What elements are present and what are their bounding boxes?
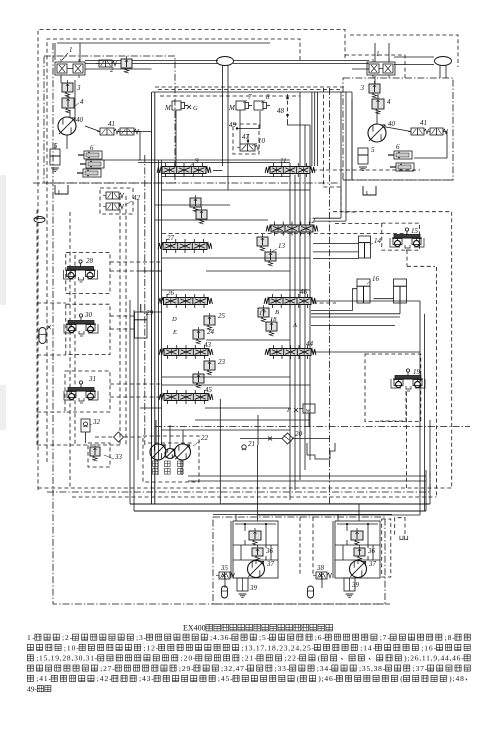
spool valve 43 ten-way xyxy=(164,349,208,356)
pilot filter capsule xyxy=(34,217,45,223)
dashed stub right of swing xyxy=(395,518,405,535)
svg-text:;6-: ;6- xyxy=(315,633,326,642)
svg-text:;43-: ;43- xyxy=(139,674,154,683)
dashed pilot drop rocker19 xyxy=(405,392,407,488)
svg-text:16: 16 xyxy=(372,275,380,283)
dashed box 33 xyxy=(88,443,110,467)
return lines above manifold xyxy=(188,475,426,477)
right bank feed lines upper xyxy=(311,92,313,166)
overload valve 13 xyxy=(257,237,268,246)
svg-text:21: 21 xyxy=(248,440,255,448)
tank left travel xyxy=(55,185,68,194)
wire top bus left xyxy=(85,60,218,62)
svg-text:;12-: ;12- xyxy=(143,643,158,652)
svg-text:33: 33 xyxy=(114,453,123,461)
tank symbol under 5 right xyxy=(359,166,367,168)
svg-text:25: 25 xyxy=(218,312,226,320)
dashed lower boundary xyxy=(38,487,452,489)
overload valve 4 right xyxy=(372,99,384,109)
aux pump small xyxy=(165,449,175,459)
front pump xyxy=(150,444,166,460)
relief pair upper b xyxy=(196,210,207,219)
pilot filter diamond xyxy=(114,432,124,442)
travel motor 40 left xyxy=(58,117,76,135)
check valve 32 xyxy=(81,419,90,432)
speed valve 41 left a xyxy=(100,128,114,135)
svg-text:;37-: ;37- xyxy=(413,664,428,673)
remote control valve 19 xyxy=(406,369,409,372)
wire valve9 to joint xyxy=(213,170,223,172)
relief pair upper a xyxy=(190,198,201,207)
svg-text:36: 36 xyxy=(265,547,274,555)
spool valve 26 xyxy=(164,298,208,305)
dashed headers under bus xyxy=(155,86,345,88)
bucket cylinder 14 xyxy=(359,236,371,258)
spool valve 46 xyxy=(269,298,311,305)
swing ground symbols xyxy=(239,593,247,595)
overload valve 13b xyxy=(265,252,276,261)
wire rocker 15 pilots xyxy=(406,250,408,266)
spool valve 11 xyxy=(270,167,310,174)
pump outlet lines xyxy=(155,420,157,444)
tank right travel xyxy=(363,186,376,195)
wire network left cluster to bank xyxy=(85,68,152,70)
spool valve 27 nine-way xyxy=(163,243,207,250)
swing frame left xyxy=(233,521,278,578)
dashed box pilot selector xyxy=(233,124,259,154)
dashed pilot to rocker 15 xyxy=(335,222,382,224)
pilot spool valve 9 xyxy=(162,167,206,174)
svg-text:4: 4 xyxy=(387,98,391,106)
rear pump xyxy=(175,444,191,460)
dash-dot swing frame xyxy=(213,517,385,604)
dashed box rocker 28 xyxy=(66,253,110,294)
svg-text:1: 1 xyxy=(69,46,73,54)
svg-text:9: 9 xyxy=(195,157,199,165)
long pilot dashed crossline xyxy=(162,232,407,234)
swash piston 6 left b xyxy=(86,160,104,168)
pilot valve 3 top xyxy=(121,59,132,68)
pilot supply lines xyxy=(85,432,87,443)
dashed drop line right xyxy=(435,267,437,497)
svg-text:39: 39 xyxy=(249,584,258,592)
oil cooler 20 xyxy=(282,433,293,444)
svg-text:44: 44 xyxy=(306,340,314,348)
wire boom cylinders feed xyxy=(311,289,357,311)
left block edge line2 xyxy=(133,310,135,511)
outer dashed enclosure top-left system boundary xyxy=(38,30,345,491)
svg-text:17: 17 xyxy=(259,310,266,317)
svg-text:39: 39 xyxy=(351,581,360,589)
accumulator 34 xyxy=(39,328,46,344)
swing relief left xyxy=(249,531,261,540)
dashed box rocker 15 xyxy=(382,223,420,250)
right distribution lines xyxy=(419,301,421,515)
dash-dot pilot boundary left xyxy=(53,43,390,604)
svg-text:w: w xyxy=(306,408,310,414)
solenoid valve 2 xyxy=(99,60,112,67)
relief valve 3 left xyxy=(62,83,73,92)
svg-text:5: 5 xyxy=(54,142,58,150)
swing motor 37 right xyxy=(350,561,367,578)
svg-text:4: 4 xyxy=(80,98,84,106)
spool valve 44 xyxy=(270,349,311,356)
cooler line xyxy=(240,438,282,440)
node 49 xyxy=(236,127,238,129)
pilot headers right xyxy=(313,169,420,171)
svg-text:);26,11,9,44,46-: );26,11,9,44,46- xyxy=(404,654,464,663)
boom cylinder 16 right xyxy=(394,279,407,303)
svg-text:E: E xyxy=(172,329,177,336)
swing motor 37 left xyxy=(248,561,265,578)
swing pilot dashed drops xyxy=(299,517,301,575)
brake valve 38 xyxy=(316,572,327,579)
svg-text:;10-: ;10- xyxy=(64,643,79,652)
svg-text:B: B xyxy=(275,309,279,316)
pilot connector lines xyxy=(37,302,66,304)
counterbalance valve 1 right xyxy=(367,62,395,75)
bottom manifold lines xyxy=(130,503,430,505)
svg-text:10: 10 xyxy=(258,137,266,145)
svg-text:30: 30 xyxy=(84,311,93,319)
rotary joint right xyxy=(435,57,452,66)
overload valve 23b xyxy=(193,374,204,383)
node 47 xyxy=(247,140,249,142)
svg-text:38: 38 xyxy=(316,564,325,572)
svg-text:24: 24 xyxy=(207,328,215,336)
svg-text:42: 42 xyxy=(133,194,141,202)
svg-text:1: 1 xyxy=(376,50,380,58)
counterbalance valve 1 left xyxy=(55,62,85,75)
svg-text:;8-: ;8- xyxy=(445,633,456,642)
shuttle valve 48 line xyxy=(287,94,289,119)
pilot lines rockers to bank xyxy=(110,261,162,263)
tank symbol under 5 left xyxy=(51,167,59,169)
tiny tank cups right xyxy=(400,536,403,540)
svg-text:36: 36 xyxy=(367,547,376,555)
main return line T1 xyxy=(158,160,160,460)
svg-text:;16-: ;16- xyxy=(421,643,436,652)
inner dashed enclosure upper works xyxy=(47,39,300,462)
high pressure relief valve 8 xyxy=(254,101,263,110)
wires travel-left internal xyxy=(60,76,62,83)
wire right cluster feeds xyxy=(351,100,353,180)
svg-text:);46-: );46- xyxy=(318,674,336,683)
svg-text:;33-: ;33- xyxy=(275,664,290,673)
svg-text:;5-: ;5- xyxy=(259,633,270,642)
bank-to-manifold verticals xyxy=(219,399,221,504)
svg-text:);48: );48 xyxy=(449,674,464,683)
electro-hydraulic valve 42a xyxy=(106,192,119,199)
svg-text:3: 3 xyxy=(360,84,365,92)
dashed pilot step xyxy=(323,187,356,212)
swash piston 6 left c xyxy=(83,169,101,177)
wires travel-right internal xyxy=(376,111,378,124)
svg-text:EX400: EX400 xyxy=(183,624,206,633)
hydraulic switch valve 10 xyxy=(240,144,255,151)
svg-text:;42-: ;42- xyxy=(97,674,112,683)
svg-text:;32,47-: ;32,47- xyxy=(221,664,248,673)
check valve 21 xyxy=(242,445,246,449)
pilot dashed verticals left xyxy=(119,196,121,445)
overload valve 23 xyxy=(204,361,215,370)
rotary joint left xyxy=(217,57,234,66)
header line right xyxy=(337,523,378,525)
pump labels chinese xyxy=(153,461,159,467)
svg-text:;29-: ;29- xyxy=(179,664,194,673)
svg-text:14: 14 xyxy=(374,237,382,245)
wire cylinder 14 feed xyxy=(313,243,359,245)
centre feed verticals right of bank xyxy=(340,92,342,218)
svg-text:22: 22 xyxy=(201,434,209,442)
speed valve 41 left b xyxy=(120,128,134,135)
svg-text:27: 27 xyxy=(167,234,175,242)
svg-text:37: 37 xyxy=(368,560,377,568)
svg-text:;27-: ;27- xyxy=(100,664,115,673)
spool valve 45 xyxy=(164,394,208,401)
pilot dashed verticals far left xyxy=(69,212,71,488)
rotary joint right drops xyxy=(439,66,441,79)
svg-text:6: 6 xyxy=(396,143,400,151)
swing relief right xyxy=(351,531,363,540)
header line left xyxy=(235,523,276,525)
svg-text:;14-: ;14- xyxy=(360,643,375,652)
accumulator small right xyxy=(308,586,314,598)
dash-dot travel-left frame xyxy=(44,56,175,183)
remote control valve 31 xyxy=(79,381,82,384)
dash-dot long boundary centre-right xyxy=(329,88,331,505)
wire joint drops lower xyxy=(222,92,224,166)
svg-text:31: 31 xyxy=(88,375,96,383)
svg-text:;7-: ;7- xyxy=(380,633,391,642)
svg-text:;22-: ;22- xyxy=(284,654,299,663)
main pressure line P2 xyxy=(154,92,156,504)
brake valve 35 xyxy=(219,572,230,579)
right outer dashed boundary xyxy=(333,212,452,488)
spool valve 12 xyxy=(271,225,313,232)
caption line 4 xyxy=(27,665,33,671)
svg-text:6: 6 xyxy=(90,144,94,152)
svg-text:2: 2 xyxy=(110,66,114,74)
svg-text:19: 19 xyxy=(413,368,421,376)
svg-text:M: M xyxy=(228,104,236,112)
relief valve 3 right xyxy=(369,84,380,93)
caption line 3 xyxy=(27,655,33,661)
swash piston 6 right a xyxy=(394,151,412,159)
dash-dot mid-bottom boundary xyxy=(155,426,470,428)
right bank lines xyxy=(289,175,291,500)
overload valve 17 xyxy=(258,308,269,317)
wire top bus centre xyxy=(233,60,369,62)
wire pump inlet header xyxy=(152,91,352,93)
left block edge line3 xyxy=(137,200,139,460)
svg-text:7: 7 xyxy=(248,93,252,101)
svg-text:G: G xyxy=(193,105,198,112)
dashed box rocker 30 xyxy=(66,304,110,354)
caption line 5 xyxy=(27,675,33,681)
node G xyxy=(187,105,191,109)
electro-hydraulic valve 42b xyxy=(106,203,119,210)
svg-text:37: 37 xyxy=(266,560,275,568)
svg-text:41: 41 xyxy=(420,119,427,127)
svg-text:35: 35 xyxy=(220,564,229,572)
svg-text:3: 3 xyxy=(76,84,81,92)
overload valve 4 left xyxy=(62,98,74,108)
remote control valve 28 xyxy=(79,260,82,263)
svg-text:;2-: ;2- xyxy=(62,633,73,642)
speed valve 41 right a xyxy=(411,128,424,135)
svg-text:29: 29 xyxy=(146,309,154,317)
svg-text:18: 18 xyxy=(270,316,277,323)
swing supply lines xyxy=(222,503,390,505)
wire bottom right connections xyxy=(425,470,427,511)
overload valve 25 xyxy=(204,316,215,325)
left block edge line xyxy=(129,300,131,504)
svg-text:45: 45 xyxy=(205,386,213,394)
dashed boundary centre-right xyxy=(322,88,324,187)
pump drive shafts xyxy=(148,442,192,444)
svg-text:;35,38-: ;35,38- xyxy=(359,664,386,673)
svg-text:;41-: ;41- xyxy=(36,674,51,683)
svg-text:43: 43 xyxy=(204,341,212,349)
svg-text:40: 40 xyxy=(76,116,84,124)
dash-dot lower boundary xyxy=(47,470,430,492)
svg-text:;21-: ;21- xyxy=(242,654,257,663)
svg-text:;15,19,28,30,31-: ;15,19,28,30,31- xyxy=(36,654,98,663)
overload valve 36 right xyxy=(354,548,365,556)
speed valve 41 right b xyxy=(430,128,443,135)
svg-text:40: 40 xyxy=(388,120,396,128)
dashed enclosure top-right xyxy=(350,35,458,67)
svg-text:;34-: ;34- xyxy=(317,664,332,673)
brake cylinder 5 left xyxy=(50,149,60,165)
svg-text:11: 11 xyxy=(280,157,286,165)
brake cylinder 5 right xyxy=(358,148,368,164)
main pressure line P1 xyxy=(151,92,153,504)
svg-text:D: D xyxy=(171,316,177,323)
solid inner frame top xyxy=(57,42,270,44)
dash-dot mid separator left xyxy=(33,182,340,184)
svg-text:;4.36-: ;4.36- xyxy=(210,633,232,642)
relief valve 33 xyxy=(90,447,100,456)
svg-text:32: 32 xyxy=(92,418,101,426)
wire joint drops xyxy=(222,66,224,93)
arm cylinder 29 xyxy=(135,312,148,338)
svg-text:13: 13 xyxy=(278,242,286,250)
caption line 2 xyxy=(27,644,33,650)
wire top bus right xyxy=(394,56,434,58)
dashed lower boundary 2 xyxy=(72,496,436,498)
svg-text:;3-: ;3- xyxy=(136,633,147,642)
svg-text:15: 15 xyxy=(411,227,419,235)
svg-text:;13,17,18,23,24,25-: ;13,17,18,23,24,25- xyxy=(241,643,314,652)
svg-text:23: 23 xyxy=(218,358,226,366)
accumulator small left xyxy=(222,586,228,598)
svg-text:28: 28 xyxy=(86,257,94,265)
swing right companion dashed box xyxy=(382,519,391,577)
wire valve12 up-right xyxy=(313,217,341,219)
svg-text:5: 5 xyxy=(371,146,375,154)
dashed box 42 xyxy=(100,188,133,214)
overload valve 24 xyxy=(193,330,204,339)
svg-text:8: 8 xyxy=(266,93,270,101)
svg-text:41: 41 xyxy=(108,120,115,128)
svg-text:;45-: ;45- xyxy=(218,674,233,683)
svg-text:20: 20 xyxy=(295,430,303,438)
wires regulator xyxy=(175,110,177,166)
svg-text:49-: 49- xyxy=(27,685,38,694)
overload valve 18 xyxy=(266,322,277,331)
remote control valve 30 xyxy=(79,314,82,317)
svg-text:46: 46 xyxy=(300,288,308,296)
dashed box rocker 19 xyxy=(365,354,421,422)
swing frame right xyxy=(335,521,380,578)
dash-dot travel-right frame xyxy=(343,78,453,180)
dash-dot pilot vertical left bank xyxy=(144,155,146,445)
remote control valve 15 xyxy=(405,228,408,231)
svg-text:A: A xyxy=(292,322,297,329)
svg-text:M: M xyxy=(164,104,172,112)
svg-text:;20-: ;20- xyxy=(181,654,196,663)
svg-text:48: 48 xyxy=(277,107,285,115)
dashed enclosure right upper xyxy=(345,55,405,78)
main return line T2 xyxy=(161,160,163,445)
overload valve 36 left xyxy=(252,548,263,556)
dashed box pump group xyxy=(143,436,199,482)
dashed box rocker 31 xyxy=(65,371,110,412)
reducing valve 39 left xyxy=(237,578,248,591)
boom cylinder 16 left xyxy=(357,279,370,303)
pilot line vertical xyxy=(36,210,38,445)
wire bank cross lines xyxy=(138,159,290,161)
swash piston 6 right b xyxy=(396,163,414,171)
swash piston 6 left a xyxy=(84,151,102,159)
wire rocker 19 pilots xyxy=(380,391,406,421)
reducing valve 39 right xyxy=(344,578,355,591)
dash-dot mid separator right xyxy=(343,179,453,181)
travel motor 40 right xyxy=(368,124,386,142)
